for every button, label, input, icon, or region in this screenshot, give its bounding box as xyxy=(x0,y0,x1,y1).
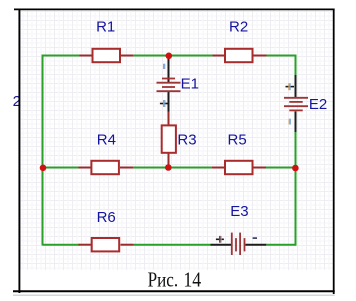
svg-text:E1: E1 xyxy=(181,75,199,92)
svg-text:R5: R5 xyxy=(228,131,247,148)
svg-text:R4: R4 xyxy=(97,131,116,148)
svg-text:14: 14 xyxy=(183,268,201,292)
svg-text:R1: R1 xyxy=(96,19,115,36)
svg-text:R6: R6 xyxy=(97,209,116,226)
svg-text:E3: E3 xyxy=(230,203,248,220)
svg-text:R2: R2 xyxy=(229,19,248,36)
svg-text:R3: R3 xyxy=(177,131,196,148)
svg-text:Рис.: Рис. xyxy=(148,268,179,292)
svg-text:E2: E2 xyxy=(309,96,327,113)
